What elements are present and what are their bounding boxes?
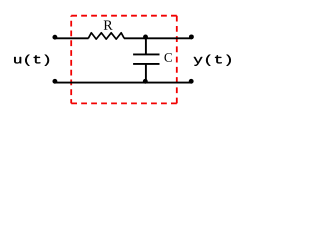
label C — [164, 53, 171, 62]
node junction bottom — [143, 79, 148, 84]
wire capacitor top lead — [145, 38, 147, 54]
wire input to resistor — [54, 37, 89, 39]
node input bottom terminal — [52, 79, 57, 84]
label R — [104, 21, 113, 30]
resistor R — [88, 33, 124, 39]
node output top terminal — [189, 34, 194, 39]
label y(t) — [194, 55, 231, 66]
wire capacitor bottom lead — [145, 64, 147, 83]
node junction top — [143, 35, 148, 40]
label u(t) — [14, 55, 49, 66]
node input top terminal — [52, 35, 57, 40]
node output bottom terminal — [189, 79, 194, 84]
wire resistor to output — [124, 37, 192, 39]
system boundary box (dashed red) — [71, 16, 177, 104]
wire bottom rail — [54, 82, 192, 84]
capacitor C — [133, 54, 159, 64]
